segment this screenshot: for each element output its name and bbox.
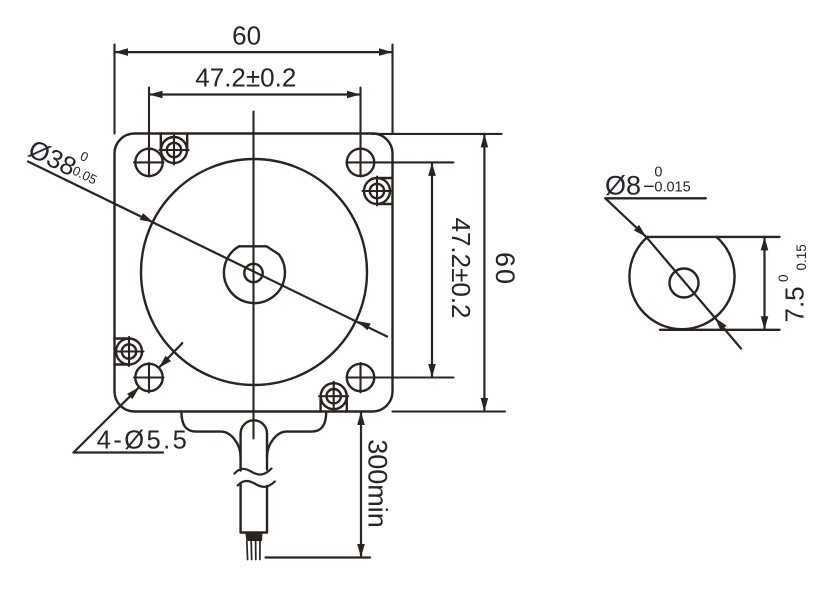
arrowhead 47.2 right lower <box>428 364 436 378</box>
arrowhead 7.5 lower <box>761 316 769 330</box>
svg-text:0.015: 0.015 <box>654 180 690 196</box>
shaft bottom extension line <box>660 329 780 331</box>
arrowhead 4-Ø5.5 upper leader <box>159 356 171 368</box>
dim 60 right: dimension line <box>483 134 485 412</box>
wire ferrule (solid) <box>245 533 262 542</box>
svg-text:−: − <box>643 176 655 198</box>
shaft center hole <box>670 269 699 298</box>
mounting hole BL <box>135 364 162 391</box>
arrowhead 60 right upper <box>481 134 489 148</box>
BL hole centerlines <box>134 376 164 378</box>
TL hole horizontal centerline <box>134 161 164 163</box>
dim 60 right: extension lines <box>372 133 502 135</box>
dim 47.2 right: dimension line <box>431 162 433 377</box>
label Ø38 with tolerance (rotated along leader) <box>24 127 107 193</box>
svg-text:0: 0 <box>654 165 662 181</box>
svg-text:47.2±0.2: 47.2±0.2 <box>195 63 296 93</box>
arrowhead 7.5 upper <box>761 237 769 251</box>
arrowhead Ø38 at upper-left of circle <box>140 213 154 222</box>
arrowhead 60 right lower <box>481 398 489 412</box>
cable right side upper <box>266 434 268 470</box>
svg-text:0: 0 <box>78 148 91 165</box>
dim text 7.5 with tolerance (rotated) <box>776 244 810 322</box>
rear boss TL <box>161 137 187 163</box>
arrowhead 47.2 top right <box>347 91 361 99</box>
4-Ø5.5 leader tail beyond hole <box>159 343 183 368</box>
vertical centerline <box>252 112 254 439</box>
4-Ø5.5 leader underline <box>74 451 164 453</box>
arrowhead 47.2 right upper <box>428 162 436 176</box>
mounting hole TL <box>135 149 162 176</box>
arrowhead 300min lower <box>357 544 365 558</box>
dim 47.2 top: dimension line <box>149 93 361 95</box>
lead wires <box>246 541 249 560</box>
TR hole horizontal centerline / extension <box>347 161 454 163</box>
dim 47.2 top: extension lines <box>148 88 150 177</box>
svg-text:0.15: 0.15 <box>794 244 809 270</box>
Ø8 leader segment <box>605 198 646 237</box>
pilot circle Ø38 <box>141 159 367 385</box>
dim 7.5: dimension line <box>763 237 765 330</box>
svg-text:47.2±0.2: 47.2±0.2 <box>446 217 476 318</box>
cable bell right <box>267 412 326 457</box>
Ø8 label underline <box>605 197 706 199</box>
4-Ø5.5 leader segment to hole <box>74 387 140 452</box>
arrowhead 60 top right <box>379 48 393 56</box>
svg-text:0: 0 <box>776 274 791 282</box>
dim 60 top: extension lines <box>113 45 115 134</box>
shaft hole center <box>244 264 262 282</box>
cable left side upper <box>239 434 241 471</box>
break squiggle 1 <box>235 469 272 475</box>
arrowhead Ø38 at lower-right of circle <box>357 321 371 330</box>
arrowhead 4-Ø5.5 lower leader <box>127 387 139 399</box>
cable left side lower <box>239 485 241 533</box>
svg-text:4-Ø5.5: 4-Ø5.5 <box>97 427 189 455</box>
shaft section: circle with flat <box>629 237 734 329</box>
dim 300min: bottom extension line <box>266 556 371 558</box>
Ø8 diameter line through shaft <box>646 237 741 349</box>
dim 300min: dimension line <box>360 412 362 558</box>
break squiggle 2 <box>238 481 275 487</box>
arrowhead 300min upper <box>357 412 365 426</box>
svg-text:Ø8: Ø8 <box>605 171 641 201</box>
dim 60 top: dimension line <box>115 51 393 53</box>
arrowhead Ø8 at lower-right of shaft circle <box>715 318 727 331</box>
shaft flat + top extension line <box>648 236 780 238</box>
Ø38 leader line <box>28 162 387 337</box>
svg-text:60: 60 <box>490 252 520 286</box>
svg-text:7.5: 7.5 <box>780 286 810 322</box>
BR hole centerlines / extension <box>347 376 454 378</box>
cable end <box>241 531 267 533</box>
mounting hole TR <box>347 149 374 176</box>
rear boss BR <box>321 383 347 409</box>
rear boss TR <box>364 178 390 204</box>
cable cap <box>241 420 267 433</box>
arrowhead 60 top left <box>115 48 129 56</box>
arrowhead Ø8 at flat corner <box>634 225 646 237</box>
mounting hole BR <box>347 364 374 391</box>
arrowhead 47.2 top left <box>149 91 163 99</box>
svg-text:60: 60 <box>232 21 261 51</box>
center boss with flat <box>224 246 285 303</box>
motor flange body <box>115 134 393 412</box>
cable right side lower <box>266 486 268 533</box>
svg-text:300min: 300min <box>363 439 393 528</box>
cable bell left <box>181 412 240 457</box>
rear boss BL <box>116 339 142 365</box>
